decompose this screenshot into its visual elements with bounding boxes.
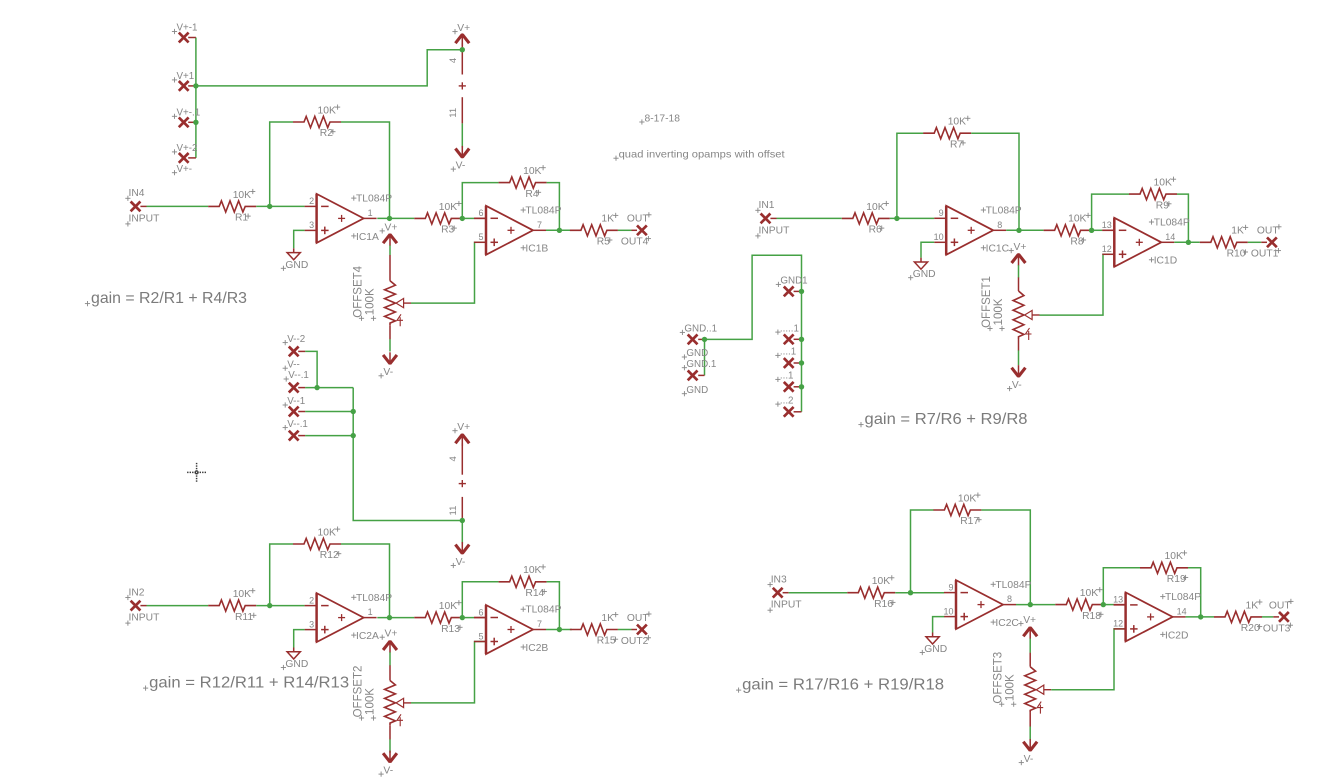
wire [1177, 194, 1188, 242]
label IN4 [125, 188, 144, 201]
svg-text:.....1: .....1 [780, 323, 799, 334]
supply arrow V+ [1012, 253, 1026, 265]
svg-text:INPUT: INPUT [759, 225, 791, 236]
label IN2 [125, 587, 144, 600]
resistor R1 [208, 189, 256, 224]
resistor R15 [570, 612, 618, 647]
wire [294, 630, 305, 648]
svg-text:IC2A: IC2A [356, 631, 379, 642]
pin stub [188, 85, 196, 87]
svg-text:R2: R2 [320, 128, 333, 139]
svg-text:gain = R17/R16 + R19/R18: gain = R17/R16 + R19/R18 [742, 677, 944, 694]
wire [411, 242, 486, 303]
svg-text:4: 4 [448, 58, 459, 63]
label ...2 [775, 395, 793, 406]
svg-text:12: 12 [1113, 619, 1123, 629]
svg-text:GND: GND [285, 260, 308, 271]
pin stub [698, 338, 704, 340]
pin OUT2 [637, 625, 647, 635]
svg-text:6: 6 [478, 208, 483, 218]
junction [799, 337, 804, 342]
svg-text:IC1C: IC1C [986, 244, 1010, 255]
wire [195, 38, 197, 158]
resistor R3 [414, 201, 462, 236]
svg-text:V+-1: V+-1 [177, 23, 198, 34]
pin header GND.1 [688, 371, 698, 381]
junction node A1 [267, 204, 272, 209]
svg-text:13: 13 [1113, 595, 1123, 605]
pin stub [474, 617, 486, 619]
wire [305, 351, 317, 387]
resistor R8 [1044, 213, 1092, 248]
resistor R19 [1140, 550, 1188, 585]
svg-text:10: 10 [943, 606, 953, 616]
junction node D3 [1101, 602, 1106, 607]
svg-text:7: 7 [537, 619, 542, 629]
svg-text:V--2: V--2 [287, 334, 305, 345]
junction [193, 83, 198, 88]
op-amp IC2D [1113, 592, 1201, 641]
svg-text:R14: R14 [525, 588, 544, 599]
label INPUT [768, 600, 803, 613]
IC1 power pin 4 [448, 43, 462, 74]
wire [1029, 639, 1031, 653]
pin stub [298, 411, 305, 413]
wire [294, 230, 305, 248]
wire [377, 217, 414, 219]
svg-text:10K: 10K [1154, 178, 1172, 189]
junction node C4 [1186, 240, 1191, 245]
label .....1 [775, 323, 799, 334]
pot pin bottom [1018, 339, 1020, 351]
wire [1006, 229, 1043, 231]
op-amp IC2B [474, 605, 562, 654]
note title [613, 149, 784, 160]
pin stub [794, 386, 802, 388]
svg-text:R12: R12 [320, 550, 339, 561]
svg-text:8: 8 [1007, 594, 1012, 604]
junction node C1 [894, 216, 899, 221]
svg-text:OFFSET3: OFFSET3 [993, 652, 1005, 704]
pin IN1 [761, 214, 771, 224]
wire [1186, 616, 1214, 618]
svg-text:OFFSET1: OFFSET1 [981, 276, 993, 328]
wire [461, 521, 463, 544]
wire [389, 245, 391, 255]
resistor R9 [1129, 177, 1177, 212]
pin stub [1261, 241, 1267, 243]
label V- [1007, 380, 1022, 391]
resistor R12 [293, 527, 341, 562]
resistor R13 [414, 600, 462, 635]
pin IN2 [131, 601, 141, 611]
supply arrow V- [1023, 739, 1037, 751]
pin header GND1 pad 3 [784, 358, 794, 368]
pin header V- pad 2 [289, 383, 299, 393]
junction node A2 [387, 216, 392, 221]
svg-text:10K: 10K [439, 202, 457, 213]
junction [799, 289, 804, 294]
supply arrow V- [383, 751, 397, 763]
svg-text:V+: V+ [1014, 242, 1027, 253]
svg-text:V--: V-- [287, 359, 300, 370]
svg-text:OFFSET2: OFFSET2 [353, 666, 365, 718]
svg-text:IN3: IN3 [771, 575, 787, 586]
IC1 power part origin [459, 82, 466, 89]
pin stub [298, 350, 305, 352]
wire [933, 617, 945, 633]
svg-text:14: 14 [1165, 232, 1175, 242]
wire [1092, 229, 1103, 231]
resistor R7 [923, 116, 971, 151]
svg-text:1: 1 [368, 607, 373, 617]
svg-text:R16: R16 [874, 599, 893, 610]
wire [547, 582, 560, 630]
svg-text:V+: V+ [1023, 615, 1036, 626]
label V--1 [283, 396, 306, 407]
pin stub [298, 387, 305, 389]
resistor R11 [208, 588, 256, 623]
svg-text:R1: R1 [235, 213, 248, 224]
op-amp IC1A [305, 194, 393, 243]
wire [389, 652, 391, 665]
wire [1018, 350, 1020, 365]
IC1 power pin 11 [448, 97, 462, 123]
sheet origin marker [187, 463, 206, 482]
svg-text:R6: R6 [869, 225, 882, 236]
svg-text:quad inverting opamps with off: quad inverting opamps with offset [619, 149, 785, 160]
op-amp IC2A [305, 593, 393, 642]
svg-text:7: 7 [537, 220, 542, 230]
label V-- [283, 359, 300, 370]
label V+ [1009, 242, 1027, 253]
svg-text:INPUT: INPUT [129, 213, 161, 224]
potentiometer OFFSET1 [981, 276, 1040, 340]
svg-text:V-: V- [1012, 380, 1022, 391]
label GND.1 [682, 359, 717, 370]
junction [351, 433, 356, 438]
junction node C2 [1016, 228, 1021, 233]
ground GND [920, 633, 947, 656]
wire [196, 50, 462, 86]
pin stub [188, 121, 196, 123]
svg-text:R10: R10 [1227, 249, 1246, 260]
svg-text:gain = R2/R1 + R4/R3: gain = R2/R1 + R4/R3 [91, 290, 247, 307]
pin header GND1 pad 2 [784, 334, 794, 344]
label ...1 [775, 371, 793, 382]
wire [777, 217, 842, 219]
svg-text:TL084P: TL084P [1154, 218, 1190, 229]
svg-text:8-17-18: 8-17-18 [645, 113, 681, 124]
svg-text:IC1A: IC1A [356, 232, 379, 243]
pin stub [794, 411, 802, 413]
wire [1051, 629, 1125, 690]
wire [1029, 727, 1031, 741]
svg-text:1K: 1K [1231, 226, 1244, 237]
wire [462, 183, 498, 219]
label ....1 [775, 347, 796, 358]
wire [897, 133, 924, 218]
pin stub [1114, 604, 1126, 606]
svg-text:V+: V+ [385, 629, 398, 640]
svg-text:V+-2: V+-2 [177, 143, 198, 154]
op-amp IC1B [474, 206, 562, 255]
svg-text:10K: 10K [233, 190, 251, 201]
svg-text:R11: R11 [235, 612, 253, 623]
pin stub [1273, 616, 1279, 618]
wire [1092, 194, 1130, 230]
label INPUT [125, 213, 160, 226]
wire [547, 183, 560, 231]
svg-text:R5: R5 [597, 237, 610, 248]
note gain formula 3 [858, 411, 1027, 428]
svg-text:V--.1: V--.1 [288, 370, 309, 381]
note date [639, 113, 680, 124]
wire [353, 388, 462, 521]
svg-text:IC1B: IC1B [525, 244, 548, 255]
svg-text:10K: 10K [523, 565, 541, 576]
resistor R6 [842, 201, 890, 236]
svg-text:10K: 10K [1080, 588, 1098, 599]
svg-text:1K: 1K [601, 613, 614, 624]
resistor R16 [847, 575, 895, 610]
label OUT [1257, 224, 1282, 237]
pin header GND..1 [688, 335, 698, 345]
wire [462, 217, 474, 219]
svg-text:1: 1 [368, 208, 373, 218]
wire [389, 739, 391, 753]
junction [799, 384, 804, 389]
wire [461, 123, 463, 147]
svg-text:GND: GND [924, 644, 947, 655]
pin stub [794, 362, 802, 364]
IC2 power part origin [459, 480, 466, 487]
ground GND [281, 648, 308, 671]
svg-text:gain = R7/R6 + R9/R8: gain = R7/R6 + R9/R8 [865, 411, 1028, 428]
pin header V+ pad 3 [179, 117, 189, 127]
svg-text:R4: R4 [525, 189, 538, 200]
label INPUT [755, 225, 790, 238]
svg-text:R15: R15 [597, 636, 616, 647]
resistor R18 [1055, 587, 1103, 622]
label V--.1 [283, 419, 308, 430]
resistor R17 [933, 493, 981, 528]
svg-text:V-: V- [456, 557, 466, 568]
svg-text:V--.1: V--.1 [287, 419, 308, 430]
svg-text:10K: 10K [318, 105, 336, 116]
svg-text:100K: 100K [993, 298, 1005, 325]
op-amp IC1D [1102, 218, 1190, 267]
pin stub [298, 435, 305, 437]
svg-text:IN2: IN2 [129, 587, 145, 598]
pin header GND1 pad 4 [784, 382, 794, 392]
label V+-.1 [172, 108, 200, 119]
svg-text:OUT: OUT [1257, 226, 1279, 237]
wire [895, 592, 944, 594]
svg-text:V-: V- [383, 766, 393, 777]
svg-text:100K: 100K [1005, 674, 1017, 701]
wire [1103, 568, 1140, 605]
wire [789, 592, 848, 594]
svg-text:GND: GND [686, 348, 708, 359]
label V+ [380, 629, 398, 640]
svg-text:10K: 10K [233, 589, 251, 600]
svg-text:...1: ...1 [780, 371, 794, 382]
wire [256, 605, 304, 607]
wire [618, 229, 632, 231]
label V+ [1018, 615, 1036, 626]
svg-text:3: 3 [309, 220, 314, 230]
junction [460, 518, 465, 523]
svg-text:3: 3 [309, 619, 314, 629]
pin stub [188, 157, 196, 159]
svg-text:12: 12 [1102, 244, 1112, 254]
svg-text:...2: ...2 [780, 395, 794, 406]
pin header V- pad 1 [289, 347, 299, 357]
label OUT [627, 212, 652, 225]
pin stub [632, 229, 638, 231]
label IN1 [755, 200, 774, 213]
wire [890, 217, 934, 219]
wire [305, 411, 353, 413]
wire [341, 544, 390, 618]
wire [341, 122, 390, 218]
pin IN4 [131, 202, 141, 212]
svg-text:V+-.1: V+-.1 [177, 108, 201, 119]
svg-text:OUT1: OUT1 [1251, 249, 1279, 260]
svg-text:INPUT: INPUT [771, 600, 803, 611]
svg-text:10K: 10K [1068, 214, 1086, 225]
wire [389, 339, 391, 351]
pot pin bottom [389, 725, 391, 739]
label GND [682, 385, 708, 396]
supply arrow V+ [1023, 627, 1037, 639]
svg-text:V-: V- [383, 367, 393, 378]
svg-text:TL084P: TL084P [356, 593, 392, 604]
supply arrow V- [455, 542, 469, 554]
svg-text:IN4: IN4 [129, 188, 145, 199]
wire [256, 205, 304, 207]
label OUT [1269, 599, 1294, 612]
label V+ [380, 222, 398, 233]
pin stub [794, 290, 802, 292]
svg-text:TL084P: TL084P [1165, 592, 1201, 603]
svg-text:TL084P: TL084P [995, 580, 1031, 591]
svg-text:OUT: OUT [627, 214, 649, 225]
junction [193, 120, 198, 125]
label V+ [452, 23, 470, 34]
wire [462, 582, 498, 618]
label V+ [452, 422, 470, 433]
svg-text:TL084P: TL084P [986, 206, 1022, 217]
supply arrow V+ [455, 33, 469, 45]
pin IN3 [773, 588, 783, 598]
label V+-2 [172, 143, 198, 154]
svg-text:5: 5 [478, 631, 483, 641]
junction node B4 [557, 627, 562, 632]
pin stub [794, 338, 802, 340]
potentiometer OFFSET2 [353, 666, 412, 727]
svg-text:IN1: IN1 [759, 200, 775, 211]
pin OUT4 [637, 225, 647, 235]
pot pin top [389, 255, 391, 281]
wire [546, 629, 572, 631]
svg-text:V+: V+ [457, 422, 470, 433]
resistor R5 [570, 213, 618, 248]
pot pin top [1018, 277, 1020, 291]
pin OUT1 [1267, 237, 1277, 247]
label OUT4 [621, 236, 651, 248]
svg-text:R13: R13 [441, 624, 460, 635]
wire [921, 242, 934, 257]
op-amp IC1C [934, 206, 1022, 255]
svg-text:R8: R8 [1070, 237, 1083, 248]
note gain formula 1 [85, 290, 247, 307]
wire [411, 642, 486, 703]
label V- [451, 557, 466, 568]
pin header V- pad 3 [289, 407, 299, 417]
svg-text:OUT: OUT [1269, 600, 1291, 611]
pin header V+ pad 2 [179, 81, 189, 91]
svg-text:IC2B: IC2B [525, 643, 548, 654]
junction node C3 [1089, 228, 1094, 233]
svg-text:V+: V+ [385, 222, 398, 233]
svg-text:8: 8 [997, 220, 1002, 230]
resistor R4 [499, 165, 547, 200]
pin stub [770, 217, 776, 219]
label OUT2 [621, 635, 651, 647]
wire [1188, 568, 1201, 617]
pin stub [188, 37, 196, 39]
op-amp IC2C [943, 580, 1031, 629]
note gain formula 4 [736, 677, 944, 694]
label V+-1 [172, 23, 198, 34]
svg-text:TL084P: TL084P [525, 206, 561, 217]
label INPUT [125, 613, 160, 626]
junction node D4 [1198, 614, 1203, 619]
svg-text:4: 4 [448, 456, 459, 461]
svg-text:11: 11 [448, 108, 459, 118]
svg-text:GND: GND [285, 659, 308, 670]
svg-text:V+1: V+1 [177, 71, 195, 82]
svg-text:10K: 10K [318, 527, 336, 538]
svg-text:R17: R17 [960, 516, 979, 527]
svg-text:10K: 10K [958, 493, 976, 504]
svg-text:OUT3: OUT3 [1263, 623, 1291, 634]
svg-text:5: 5 [478, 232, 483, 242]
svg-text:1K: 1K [1246, 600, 1259, 611]
svg-text:11: 11 [448, 506, 459, 516]
svg-text:R18: R18 [1082, 611, 1101, 622]
pin header V+ pad 1 [179, 33, 189, 43]
svg-text:10K: 10K [948, 117, 966, 128]
resistor R10 [1200, 225, 1248, 260]
label V--.1 [284, 370, 309, 381]
resistor R20 [1214, 599, 1262, 634]
junction node D1 [908, 590, 913, 595]
svg-text:V-: V- [456, 161, 466, 172]
wire [462, 617, 474, 619]
supply arrow V+ [455, 434, 469, 446]
junction [702, 337, 707, 342]
pin stub [783, 592, 789, 594]
svg-text:GND.1: GND.1 [686, 359, 716, 370]
supply arrow V- [455, 146, 469, 158]
wire [270, 122, 293, 206]
pin OUT3 [1279, 612, 1289, 622]
wire [911, 510, 934, 593]
wire [618, 629, 632, 631]
